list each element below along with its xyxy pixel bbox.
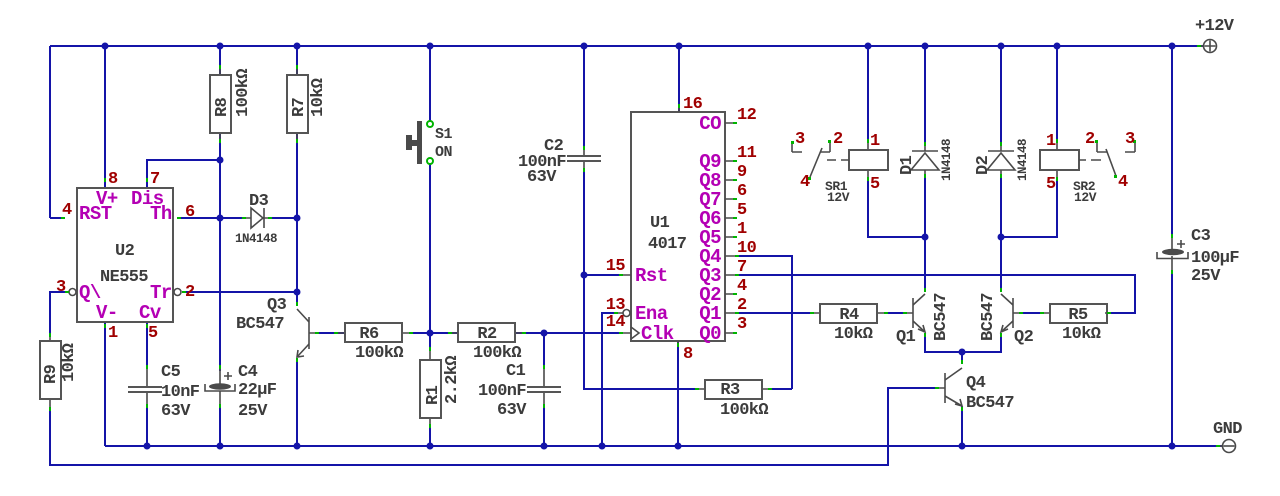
svg-text:6: 6 [737, 182, 747, 201]
svg-text:4017: 4017 [648, 235, 687, 254]
wire U2 pin2 Tr to Q3 node [184, 291, 297, 293]
wire C2 bottom to Rst node [583, 170, 585, 275]
svg-text:Q3: Q3 [267, 296, 287, 315]
svg-text:Q2: Q2 [1014, 328, 1034, 347]
svg-text:D3: D3 [249, 192, 269, 211]
U1 left/top/bottom pin stubs [618, 106, 679, 346]
wire U2 pin6 Th [178, 217, 220, 219]
wire Q4 emitter [961, 406, 963, 446]
relay SR2 contact [1085, 130, 1136, 192]
wire Q1 collector [924, 237, 926, 292]
svg-text:1: 1 [108, 324, 118, 343]
wire C3 bottom [1171, 274, 1173, 446]
wire U2 pin8 V+ [104, 46, 106, 188]
svg-text:10kΩ: 10kΩ [60, 343, 79, 382]
resistor R6 [334, 323, 413, 363]
resistor R2 [448, 323, 526, 363]
svg-text:NE555: NE555 [100, 268, 148, 287]
wire Q2 emitter to common node [962, 333, 1001, 352]
wire S1 bottom to R6/R2 node [429, 164, 431, 333]
relay SR2 coil [1040, 132, 1101, 205]
svg-text:R9: R9 [42, 364, 61, 384]
svg-text:5: 5 [1046, 175, 1056, 194]
svg-text:C1: C1 [506, 362, 526, 381]
svg-text:R6: R6 [359, 325, 379, 344]
svg-text:2: 2 [185, 283, 195, 302]
svg-text:100µF: 100µF [1191, 249, 1239, 268]
wire D2 anode to relay node [1000, 174, 1002, 237]
wire SR2 coil bottom to D2 node [1001, 177, 1057, 237]
wire U1 pin8 [677, 341, 679, 446]
svg-text:4: 4 [800, 173, 810, 192]
wire D3 cathode [270, 217, 297, 219]
svg-text:14: 14 [606, 313, 626, 332]
svg-text:Q4: Q4 [966, 374, 986, 393]
wire U1 Q4 output to R3 right [739, 256, 792, 389]
svg-text:Tr: Tr [150, 282, 172, 304]
wire Rst node to U1 pin15 [584, 274, 623, 276]
svg-text:4: 4 [737, 277, 747, 296]
wire D3 anode [220, 217, 246, 219]
svg-text:25V: 25V [238, 402, 268, 421]
svg-text:C5: C5 [161, 363, 181, 382]
svg-text:1: 1 [870, 132, 880, 151]
wire U1 Q3 output to R5 right [739, 275, 1135, 313]
resistor R5 [1040, 304, 1111, 344]
resistor R4 [810, 304, 888, 344]
svg-text:10kΩ: 10kΩ [834, 325, 873, 344]
wire R1 top [429, 333, 431, 349]
wire R8 top [219, 46, 221, 75]
svg-text:11: 11 [737, 144, 757, 163]
capacitor C4 electrolytic [205, 363, 277, 421]
wire Q3 base to R6 [315, 332, 345, 334]
transistor Q3 BC547 [236, 296, 319, 362]
svg-text:RST: RST [79, 203, 112, 225]
wire C2 top [583, 46, 585, 150]
svg-text:15: 15 [606, 257, 626, 276]
diode D1 1N4148 [898, 139, 954, 181]
diode D3 1N4148 [235, 192, 277, 246]
capacitor C3 electrolytic [1157, 227, 1239, 286]
wire D2 top [1000, 46, 1002, 146]
wire R1 bottom [429, 425, 431, 446]
wire SR1 coil top [867, 46, 869, 143]
wire R9 bottom lower rail to Q4 base [50, 388, 939, 465]
svg-text:16: 16 [683, 95, 703, 114]
resistor R3 [695, 380, 772, 420]
svg-text:100kΩ: 100kΩ [234, 69, 253, 117]
wire SR2 coil top [1056, 46, 1058, 143]
node ground rail junctions [144, 443, 1176, 450]
wire left drop rail to RST [50, 46, 64, 218]
switch S1 [406, 121, 453, 164]
transistor Q2 BC547 [979, 288, 1034, 347]
svg-text:U1: U1 [650, 214, 670, 233]
wire U2 pin5 Cv to C5 [146, 322, 148, 369]
svg-text:8: 8 [683, 345, 693, 364]
svg-text:Q1: Q1 [699, 303, 721, 325]
relay SR1 contact [791, 130, 843, 192]
wire R7 bottom down through D3 node and Tr node to Q3 collector [296, 133, 298, 306]
svg-text:U2: U2 [115, 242, 135, 261]
svg-text:63V: 63V [527, 168, 557, 187]
transistor Q4 BC547 [935, 360, 1014, 413]
svg-text:Th: Th [150, 203, 172, 225]
wire R8 bottom down through Th node to C4 [219, 133, 221, 371]
IC U1 4017 body [623, 112, 725, 341]
svg-text:7: 7 [737, 258, 747, 277]
svg-text:100kΩ: 100kΩ [720, 401, 768, 420]
power terminal +12V [1195, 17, 1235, 53]
svg-text:1: 1 [737, 220, 747, 239]
svg-text:Q\: Q\ [79, 282, 101, 304]
wire U2 pin3 Q\ to R9 [50, 292, 66, 337]
svg-text:R4: R4 [839, 306, 859, 325]
svg-text:8: 8 [108, 170, 118, 189]
svg-text:D2: D2 [974, 155, 993, 175]
svg-text:22µF: 22µF [238, 381, 277, 400]
svg-text:3: 3 [1125, 130, 1135, 149]
capacitor C5 [128, 363, 200, 421]
svg-text:BC547: BC547 [932, 293, 951, 341]
resistor R7 [287, 65, 328, 143]
U1 pin names [635, 113, 721, 345]
wire node to R2 [430, 332, 458, 334]
wire U1 Q1 output to R4 [739, 312, 814, 314]
svg-text:10kΩ: 10kΩ [1062, 325, 1101, 344]
svg-text:3: 3 [737, 315, 747, 334]
resistor R9 [40, 333, 79, 411]
resistor R1 [420, 347, 462, 428]
svg-text:BC547: BC547 [966, 394, 1014, 413]
svg-text:3: 3 [56, 278, 66, 297]
svg-text:1N4148: 1N4148 [235, 232, 277, 246]
ground terminal GND [1213, 420, 1242, 453]
svg-text:ON: ON [435, 144, 453, 161]
svg-text:5: 5 [870, 175, 880, 194]
svg-text:12V: 12V [827, 190, 850, 205]
wire U2 pin7 Dis to R8 bottom [147, 160, 220, 188]
wire +12V top rail [50, 45, 1203, 47]
U1 pin numbers [606, 95, 757, 364]
IC U2 NE555 body [61, 178, 186, 328]
svg-text:R7: R7 [290, 97, 309, 117]
svg-text:10nF: 10nF [161, 383, 200, 402]
svg-text:R8: R8 [213, 97, 232, 117]
U1 pin green ticks [614, 104, 739, 347]
svg-text:Ena: Ena [635, 303, 668, 325]
wire ground rail [105, 445, 1222, 447]
svg-text:10kΩ: 10kΩ [309, 78, 328, 117]
svg-text:Q1: Q1 [896, 328, 916, 347]
svg-text:BC547: BC547 [979, 293, 998, 341]
svg-text:D1: D1 [898, 155, 917, 175]
svg-text:Rst: Rst [635, 265, 668, 287]
transistor Q1 BC547 [896, 288, 951, 347]
wire C3 top [1171, 46, 1173, 238]
svg-text:1N4148: 1N4148 [940, 139, 954, 181]
svg-text:4: 4 [1118, 173, 1128, 192]
capacitor C1 [478, 362, 561, 420]
svg-text:5: 5 [148, 324, 158, 343]
svg-text:12V: 12V [1074, 190, 1097, 205]
svg-text:1N4148: 1N4148 [1016, 139, 1030, 181]
wire D1 top [924, 46, 926, 146]
wire Q2 base to R5 left [1019, 312, 1044, 314]
svg-text:12: 12 [737, 106, 757, 125]
svg-text:5: 5 [737, 201, 747, 220]
svg-text:CO: CO [699, 113, 721, 135]
svg-text:100kΩ: 100kΩ [473, 344, 521, 363]
wire Q3 emitter to ground rail [296, 358, 298, 446]
wire C1 bottom [543, 408, 545, 446]
svg-text:63V: 63V [497, 401, 527, 420]
U2 pin numbers [56, 170, 195, 343]
wire S1 top [429, 46, 431, 121]
svg-text:R5: R5 [1068, 306, 1088, 325]
svg-text:R2: R2 [477, 325, 497, 344]
svg-text:2: 2 [1085, 130, 1095, 149]
svg-text:2: 2 [833, 130, 843, 149]
wire SR1 coil bottom to D1 node [868, 177, 925, 237]
resistor R8 [210, 65, 253, 143]
diode D2 1N4148 [974, 139, 1030, 181]
relay SR1 coil [825, 132, 888, 205]
svg-text:6: 6 [185, 203, 195, 222]
wire Q1 emitter to common node [925, 333, 962, 352]
svg-text:+12V: +12V [1195, 17, 1235, 36]
svg-text:100nF: 100nF [478, 382, 526, 401]
wire Q4 collector [961, 352, 963, 364]
svg-text:V-: V- [96, 302, 118, 324]
wire Rst node down to R3 left [584, 275, 699, 389]
svg-text:C4: C4 [238, 363, 258, 382]
svg-text:10: 10 [737, 239, 757, 258]
svg-text:BC547: BC547 [236, 315, 284, 334]
svg-text:7: 7 [150, 170, 160, 189]
wire R2 right to C1 node to U1 Clk [516, 332, 623, 334]
svg-text:R3: R3 [720, 381, 740, 400]
U1 right pin stubs [725, 123, 735, 333]
svg-text:3: 3 [795, 130, 805, 149]
svg-text:1: 1 [1046, 132, 1056, 151]
svg-text:100kΩ: 100kΩ [355, 344, 403, 363]
svg-text:4: 4 [62, 201, 72, 220]
node mid junctions [217, 157, 1005, 356]
svg-text:C3: C3 [1191, 227, 1211, 246]
wire R6 right [409, 332, 430, 334]
svg-text:25V: 25V [1191, 267, 1221, 286]
wire U1 pin13 Ena to ground [602, 313, 618, 446]
svg-text:2.2kΩ: 2.2kΩ [443, 356, 462, 404]
svg-text:Clk: Clk [641, 323, 674, 345]
svg-text:S1: S1 [435, 126, 453, 143]
wire C4 bottom [219, 408, 221, 446]
node top rail junctions [102, 43, 1176, 50]
wire U2 pin1 V- to ground rail [104, 322, 106, 446]
wire D1 anode to relay node [924, 174, 926, 237]
svg-text:GND: GND [1213, 420, 1242, 439]
wire C5 bottom [146, 408, 148, 446]
wire R7 top [296, 46, 298, 75]
capacitor C2 [518, 137, 601, 187]
wire R4 right to Q1 base [884, 312, 907, 314]
svg-text:R1: R1 [424, 385, 443, 405]
svg-text:2: 2 [737, 296, 747, 315]
wire U1 pin16 [678, 46, 680, 112]
svg-text:63V: 63V [161, 402, 191, 421]
svg-text:Cv: Cv [139, 302, 162, 324]
wire Q2 collector [1000, 237, 1002, 292]
svg-text:9: 9 [737, 163, 747, 182]
wire C1 top [543, 333, 545, 369]
svg-text:Q0: Q0 [699, 323, 721, 345]
